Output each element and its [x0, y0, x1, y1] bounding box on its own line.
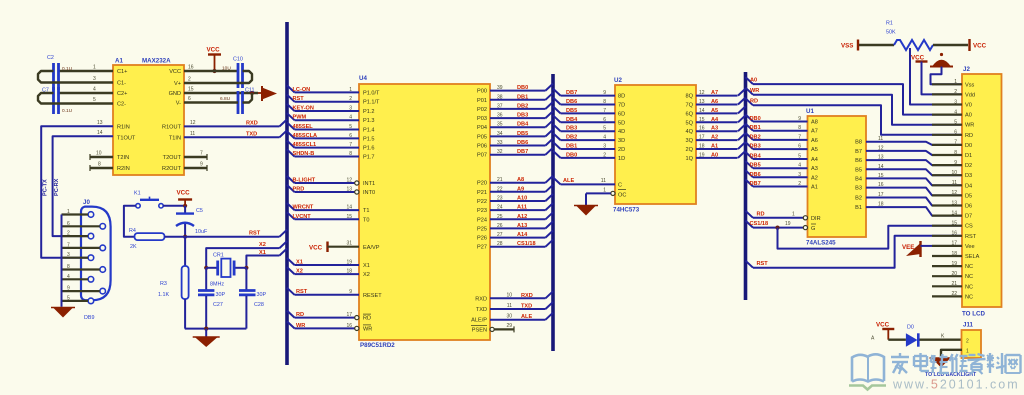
- svg-text:TXD: TXD: [476, 307, 487, 313]
- svg-text:C5: C5: [196, 208, 203, 214]
- svg-text:4D: 4D: [618, 129, 625, 135]
- svg-text:RD: RD: [363, 316, 371, 322]
- svg-text:T1OUT: T1OUT: [117, 136, 136, 142]
- svg-text:2: 2: [67, 231, 70, 237]
- svg-text:K1: K1: [134, 191, 141, 197]
- svg-text:R1IN: R1IN: [117, 125, 130, 131]
- wire net D3 from U1 pin 14 to LCD: [866, 169, 962, 175]
- svg-text:17: 17: [699, 135, 705, 141]
- svg-text:30P: 30P: [216, 292, 226, 298]
- svg-text:X1: X1: [363, 263, 370, 269]
- wire net DB6 from U4 pin 33: [490, 145, 546, 147]
- svg-text:9: 9: [67, 286, 70, 292]
- wire net DB0 from U4 pin 39: [490, 90, 546, 92]
- svg-text:PRD: PRD: [293, 187, 305, 193]
- wire net DB5 from U4 pin 34: [490, 135, 546, 137]
- svg-text:B6: B6: [855, 158, 862, 164]
- wire net RST to LCD pin 16: [746, 261, 754, 268]
- svg-text:DB2: DB2: [566, 135, 577, 141]
- wire net D1 from U1 pin 12 to LCD: [866, 151, 962, 155]
- svg-text:7: 7: [200, 151, 203, 157]
- svg-text:T2OUT: T2OUT: [163, 155, 182, 161]
- wire net DB5 to U1 pin 4: [746, 161, 754, 168]
- svg-text:A7: A7: [811, 129, 818, 135]
- svg-text:12: 12: [190, 120, 196, 126]
- svg-text:1: 1: [603, 187, 606, 193]
- wire A1 pin9 R2OUT stub: [184, 167, 207, 169]
- wire J0 ground rail: [61, 215, 63, 307]
- svg-text:9: 9: [200, 162, 203, 168]
- svg-text:D6: D6: [965, 204, 972, 210]
- svg-text:LVCNT: LVCNT: [293, 214, 312, 220]
- svg-text:B8: B8: [855, 140, 862, 146]
- svg-text:17: 17: [951, 241, 957, 247]
- svg-text:TXD: TXD: [246, 132, 257, 138]
- svg-text:DB9: DB9: [84, 315, 95, 321]
- svg-text:P03: P03: [477, 116, 487, 122]
- svg-text:D3: D3: [965, 173, 972, 179]
- svg-text:X2: X2: [296, 269, 303, 275]
- wire net LC-ON to U4 pin 1: [287, 85, 295, 92]
- wire crystal ground rail: [185, 328, 247, 330]
- svg-text:7: 7: [603, 108, 606, 114]
- svg-text:10uF: 10uF: [195, 229, 208, 235]
- svg-text:RESET: RESET: [363, 293, 382, 299]
- svg-text:22: 22: [497, 186, 503, 192]
- svg-text:RXD: RXD: [475, 296, 487, 302]
- svg-text:B1: B1: [855, 205, 862, 211]
- svg-text:CS1/18: CS1/18: [750, 221, 769, 227]
- svg-text:DB4: DB4: [566, 117, 578, 123]
- svg-text:B7: B7: [855, 149, 862, 155]
- svg-text:22: 22: [951, 291, 957, 297]
- svg-text:ALE: ALE: [521, 314, 532, 320]
- ground at LCD: [932, 60, 951, 67]
- wire net DB3 to U2 pin 5: [553, 124, 561, 131]
- svg-text:6: 6: [188, 96, 191, 102]
- svg-text:CS: CS: [965, 224, 973, 230]
- wire net DB3 from U4 pin 36: [490, 117, 546, 119]
- wire net D4 from U1 pin 15 to LCD: [866, 178, 962, 185]
- svg-text:DB7: DB7: [517, 149, 528, 155]
- latch U2 74HC573 body: [615, 85, 696, 204]
- svg-text:VCC: VCC: [876, 322, 890, 329]
- wire net RD to U1 DIR pin 1: [746, 211, 754, 218]
- wire net 485SCL1 to U4 pin 7: [287, 141, 295, 148]
- svg-text:2D: 2D: [618, 147, 625, 153]
- svg-text:50K: 50K: [886, 30, 896, 36]
- svg-text:C2-: C2-: [117, 102, 126, 108]
- wire net A1 from U2 pin 18: [696, 148, 738, 150]
- wire net D0 from U1 pin 11 to LCD: [866, 142, 962, 145]
- svg-text:DB7: DB7: [750, 181, 761, 187]
- svg-text:25: 25: [497, 214, 503, 220]
- svg-text:10: 10: [96, 151, 102, 157]
- svg-text:3Q: 3Q: [686, 138, 694, 144]
- svg-text:18: 18: [951, 251, 957, 257]
- svg-text:ALE/P: ALE/P: [471, 318, 487, 324]
- svg-text:15: 15: [699, 117, 705, 123]
- svg-text:15: 15: [951, 221, 957, 227]
- svg-text:36: 36: [497, 113, 503, 119]
- svg-text:7: 7: [67, 242, 70, 248]
- svg-text:5Q: 5Q: [686, 120, 694, 126]
- svg-text:19: 19: [699, 152, 705, 158]
- svg-text:4: 4: [93, 87, 96, 93]
- svg-text:9: 9: [798, 116, 801, 122]
- connector J2 pin stubs: [932, 83, 962, 85]
- svg-text:U2: U2: [614, 77, 622, 84]
- svg-text:DB4: DB4: [750, 154, 762, 160]
- svg-text:WR: WR: [965, 123, 974, 129]
- svg-text:23: 23: [497, 196, 503, 202]
- svg-text:EA/VP: EA/VP: [363, 245, 380, 251]
- svg-text:15: 15: [878, 173, 884, 179]
- svg-text:C1-: C1-: [117, 81, 126, 87]
- svg-text:X2: X2: [363, 272, 370, 278]
- wire net SHDN-B to U4 pin 8: [287, 150, 295, 157]
- svg-text:A10: A10: [517, 196, 527, 202]
- svg-text:A13: A13: [517, 223, 527, 229]
- wire net A0 from U2 pin 19: [696, 157, 738, 159]
- wire VCC node to C5: [184, 206, 186, 214]
- wire net DB6 to U2 pin 8: [553, 98, 561, 105]
- svg-text:VEE: VEE: [902, 244, 914, 251]
- svg-text:4: 4: [603, 135, 606, 141]
- svg-text:P1.7: P1.7: [363, 155, 375, 161]
- svg-text:A5: A5: [711, 108, 718, 114]
- svg-text:21: 21: [951, 281, 957, 287]
- svg-text:13: 13: [878, 155, 884, 161]
- svg-text:J2: J2: [963, 66, 970, 73]
- watermark chinese text: [891, 356, 909, 358]
- ground at crystal: [205, 329, 207, 337]
- svg-text:R4: R4: [129, 228, 136, 234]
- op-amp U A1 MAX232A body: [113, 65, 184, 175]
- wire net X2 (crystal left to bus B1): [206, 248, 279, 268]
- svg-text:26: 26: [497, 223, 503, 229]
- svg-text:A0: A0: [750, 78, 757, 84]
- svg-text:DB5: DB5: [517, 131, 528, 137]
- svg-text:4: 4: [349, 115, 352, 121]
- wire net RD to LCD pin 6: [746, 98, 754, 105]
- wire net TXD from U4 pin 11: [490, 308, 546, 310]
- wire net RST to bus B1: [185, 236, 279, 238]
- svg-text:SELA: SELA: [965, 254, 980, 260]
- svg-text:NC: NC: [965, 274, 973, 280]
- wire net X1 (crystal right to bus B1): [246, 256, 279, 268]
- svg-text:P27: P27: [477, 245, 487, 251]
- svg-text:RXD: RXD: [521, 293, 533, 299]
- wire net DB2 from U4 pin 37: [490, 108, 546, 110]
- wire net 485SEL to U4 pin 5: [287, 123, 295, 130]
- svg-text:R1: R1: [886, 21, 893, 27]
- svg-text:20: 20: [951, 271, 957, 277]
- svg-text:U1: U1: [806, 108, 814, 115]
- svg-text:D2: D2: [965, 163, 972, 169]
- svg-text:11: 11: [601, 178, 606, 184]
- wire net DB1 to U2 pin 3: [553, 142, 561, 149]
- svg-text:6: 6: [67, 221, 70, 227]
- wire net A8 from U4 pin 21: [490, 182, 546, 184]
- svg-text:R1OUT: R1OUT: [162, 125, 182, 131]
- svg-text:2: 2: [798, 181, 801, 187]
- svg-text:WR: WR: [750, 88, 759, 94]
- svg-text:MAX232A: MAX232A: [142, 58, 171, 65]
- svg-text:X2: X2: [259, 242, 266, 248]
- bus B1 (left of MCU): [285, 22, 289, 365]
- svg-text:T2IN: T2IN: [117, 155, 129, 161]
- wire C5 to RST node: [184, 224, 186, 237]
- capacitor C7: [52, 87, 55, 114]
- svg-text:T1: T1: [363, 208, 370, 214]
- svg-text:PWM: PWM: [293, 115, 307, 121]
- svg-text:16: 16: [346, 323, 352, 329]
- svg-text:1: 1: [349, 87, 352, 93]
- svg-text:A12: A12: [517, 214, 527, 220]
- wire A1 pin6 V- through C11: [184, 101, 238, 103]
- wire net PC-RX (A1 pin14 to DB9 pin2): [53, 136, 113, 236]
- wire net RST to U4 pin 2: [287, 95, 295, 102]
- svg-text:C1+: C1+: [117, 69, 127, 75]
- svg-text:5: 5: [67, 295, 70, 301]
- svg-text:5D: 5D: [618, 120, 625, 126]
- svg-text:OC: OC: [618, 192, 626, 198]
- svg-text:7Q: 7Q: [686, 103, 694, 109]
- svg-text:P21: P21: [477, 190, 487, 196]
- svg-text:4: 4: [67, 274, 70, 280]
- svg-text:1: 1: [67, 209, 70, 215]
- svg-text:D5: D5: [965, 193, 972, 199]
- bus B3 (right of 74HC573): [744, 72, 748, 300]
- svg-text:DIR: DIR: [811, 216, 821, 222]
- svg-text:3: 3: [798, 172, 801, 178]
- svg-text:12: 12: [878, 145, 884, 151]
- svg-text:6D: 6D: [618, 111, 625, 117]
- transceiver U1 74ALS245 body: [808, 116, 867, 237]
- potentiometer R1 50K: [859, 44, 894, 46]
- svg-text:P00: P00: [477, 89, 487, 95]
- connector J2 TO LCD body: [962, 74, 1002, 307]
- svg-text:RST: RST: [249, 231, 261, 237]
- svg-text:10: 10: [506, 292, 512, 298]
- svg-text:PC-RX: PC-RX: [54, 178, 60, 196]
- svg-text:J11: J11: [963, 322, 974, 329]
- svg-text:RXD: RXD: [246, 121, 258, 127]
- svg-text:P26: P26: [477, 236, 487, 242]
- svg-text:5: 5: [798, 154, 801, 160]
- svg-text:DB4: DB4: [517, 122, 529, 128]
- svg-text:VCC: VCC: [169, 69, 181, 75]
- svg-text:15: 15: [188, 87, 194, 93]
- svg-text:A7: A7: [711, 90, 718, 96]
- svg-text:16: 16: [699, 126, 705, 132]
- svg-text:19: 19: [346, 260, 352, 266]
- svg-text:7: 7: [798, 134, 801, 140]
- svg-text:P01: P01: [477, 98, 487, 104]
- svg-text:P05: P05: [477, 134, 487, 140]
- svg-text:A6: A6: [711, 99, 718, 105]
- svg-text:9: 9: [349, 289, 352, 295]
- svg-text:14: 14: [346, 205, 352, 211]
- wire net D7 from U1 pin 18 to LCD: [866, 207, 962, 216]
- svg-text:16: 16: [188, 65, 194, 71]
- svg-text:1: 1: [954, 79, 957, 85]
- svg-text:J0: J0: [83, 199, 90, 206]
- svg-text:14: 14: [878, 164, 884, 170]
- svg-text:2: 2: [954, 89, 957, 95]
- svg-text:DB6: DB6: [566, 99, 577, 105]
- svg-text:3: 3: [349, 106, 352, 112]
- capacitor C2: [52, 63, 55, 90]
- wire net A13 from U4 pin 26: [490, 227, 546, 229]
- svg-text:DB1: DB1: [566, 144, 577, 150]
- wire net DB5 to U2 pin 7: [553, 106, 561, 113]
- svg-text:32: 32: [497, 149, 503, 155]
- wire net A12 from U4 pin 25: [490, 218, 546, 220]
- svg-text:6: 6: [954, 130, 957, 136]
- wire net A6 from U2 pin 13: [696, 104, 738, 106]
- svg-text:WRCNT: WRCNT: [293, 205, 314, 211]
- svg-text:Vee: Vee: [965, 244, 975, 250]
- svg-text:3: 3: [954, 99, 957, 105]
- svg-text:6: 6: [798, 144, 801, 150]
- svg-text:39: 39: [497, 85, 503, 91]
- svg-text:P06: P06: [477, 144, 487, 150]
- wire J0 pin stubs: [62, 213, 89, 215]
- svg-text:2K: 2K: [130, 244, 137, 250]
- svg-text:NC: NC: [965, 264, 973, 270]
- svg-text:8Q: 8Q: [686, 94, 694, 100]
- capacitor C10: [237, 63, 240, 88]
- wire net DB3 to U1 pin 6: [746, 142, 754, 149]
- svg-text:P1.3: P1.3: [363, 118, 375, 124]
- wire net A11 from U4 pin 24: [490, 209, 546, 211]
- wire net CS1/18 to U1 G pin 19: [746, 221, 754, 228]
- svg-text:11: 11: [878, 136, 883, 142]
- svg-text:A4: A4: [811, 157, 818, 163]
- svg-text:34: 34: [497, 131, 503, 137]
- wire net DB2 to U2 pin 4: [553, 133, 561, 140]
- svg-text:5: 5: [93, 97, 96, 103]
- svg-text:TXD: TXD: [521, 304, 532, 310]
- svg-text:PC-TX: PC-TX: [43, 179, 49, 196]
- resistor R4: [135, 233, 165, 240]
- svg-text:DB3: DB3: [750, 144, 761, 150]
- svg-text:4Q: 4Q: [686, 129, 694, 135]
- svg-text:RD: RD: [296, 312, 304, 318]
- wire net A0 to LCD pin 4: [746, 77, 754, 84]
- wire net A14 from U4 pin 27: [490, 237, 546, 239]
- svg-text:A1: A1: [115, 58, 123, 65]
- svg-text:P04: P04: [477, 125, 487, 131]
- svg-text:P25: P25: [477, 226, 487, 232]
- svg-text:P24: P24: [477, 217, 487, 223]
- svg-text:D0: D0: [965, 143, 972, 149]
- svg-text:R2OUT: R2OUT: [162, 166, 182, 172]
- wire net A9 from U4 pin 22: [490, 191, 546, 193]
- svg-text:37: 37: [497, 103, 503, 109]
- svg-text:6.8U: 6.8U: [220, 96, 231, 102]
- svg-text:A14: A14: [517, 232, 528, 238]
- wire net WRCNT to U4 pin 14: [287, 203, 295, 210]
- wire A1 pin16 VCC: [184, 70, 238, 72]
- svg-text:DB0: DB0: [566, 152, 577, 158]
- svg-text:DB7: DB7: [566, 90, 577, 96]
- wire net RXD from U4 pin 10: [490, 297, 546, 299]
- svg-text:6: 6: [603, 117, 606, 123]
- svg-text:19: 19: [951, 261, 957, 267]
- svg-text:7D: 7D: [618, 103, 625, 109]
- wire A1 pin8 R2IN stub: [90, 167, 113, 169]
- wire net ALE to U2 C pin 11: [553, 177, 561, 184]
- wire C2 loop to pin3: [38, 71, 113, 83]
- svg-text:19: 19: [785, 221, 791, 227]
- svg-text:D0: D0: [907, 325, 914, 331]
- svg-text:3: 3: [603, 144, 606, 150]
- svg-text:DB5: DB5: [566, 108, 577, 114]
- svg-text:12: 12: [951, 190, 957, 196]
- wire A1 pin10 T2IN stub: [90, 156, 113, 158]
- wire net DB4 to U1 pin 5: [746, 152, 754, 159]
- svg-text:27: 27: [497, 232, 503, 238]
- capacitor C28: [245, 268, 247, 290]
- wire J11 pin 1 to ground: [941, 350, 962, 358]
- svg-text:X1: X1: [259, 250, 266, 256]
- svg-text:RST: RST: [757, 261, 769, 267]
- svg-text:G: G: [811, 226, 815, 232]
- svg-text:DB5: DB5: [750, 163, 761, 169]
- svg-text:RST: RST: [296, 289, 308, 295]
- wire net B-LIGHT to U4 pin 12: [287, 176, 295, 183]
- svg-text:A11: A11: [517, 205, 527, 211]
- svg-text:2: 2: [603, 152, 606, 158]
- svg-text:12: 12: [699, 90, 705, 96]
- svg-text:2: 2: [188, 77, 191, 83]
- wire net DB6 to U1 pin 3: [746, 170, 754, 177]
- svg-text:VCC: VCC: [177, 190, 191, 197]
- svg-text:18: 18: [878, 202, 884, 208]
- svg-text:0.1U: 0.1U: [62, 108, 73, 114]
- svg-text:14: 14: [951, 210, 957, 216]
- svg-text:V-: V-: [176, 101, 181, 107]
- wire R3 to ground rail: [184, 299, 186, 329]
- svg-text:14: 14: [699, 108, 705, 114]
- svg-text:C2: C2: [47, 55, 54, 61]
- svg-text:DB6: DB6: [517, 140, 528, 146]
- capacitor C11: [237, 91, 240, 114]
- svg-text:P20: P20: [477, 181, 487, 187]
- capacitor C5: [176, 212, 194, 214]
- svg-text:16: 16: [951, 231, 957, 237]
- power VCC at R1: [968, 39, 970, 51]
- wire K1 right to VCC node: [163, 205, 185, 207]
- svg-text:74ALS245: 74ALS245: [806, 240, 836, 247]
- svg-text:5: 5: [349, 124, 352, 130]
- svg-text:A0: A0: [965, 113, 972, 119]
- svg-text:B5: B5: [855, 167, 862, 173]
- svg-text:RST: RST: [293, 96, 305, 102]
- svg-text:DB2: DB2: [517, 103, 528, 109]
- svg-text:Vss: Vss: [965, 82, 975, 88]
- wire A1 pin7 T2OUT stub: [184, 156, 207, 158]
- svg-text:6: 6: [349, 133, 352, 139]
- svg-text:8: 8: [67, 264, 70, 270]
- wire net 485SCLA to U4 pin 6: [287, 131, 295, 138]
- svg-text:DB1: DB1: [517, 94, 528, 100]
- svg-text:P1.1/T: P1.1/T: [363, 100, 380, 106]
- svg-text:X1: X1: [296, 260, 303, 266]
